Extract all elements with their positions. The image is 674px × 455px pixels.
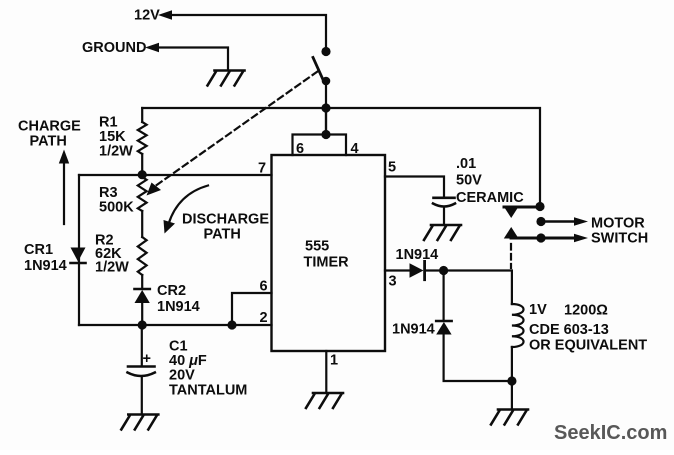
relay contact (upper, NC) bbox=[504, 207, 542, 219]
label 1N914 (series) bbox=[396, 247, 439, 263]
svg-text:SWITCH: SWITCH bbox=[591, 231, 648, 247]
label C1 40uF 20V TANTALUM bbox=[169, 339, 247, 399]
wire left rail bbox=[78, 175, 80, 325]
svg-text:2: 2 bbox=[260, 310, 268, 326]
mechanical link (dashed) switch to R3 bbox=[147, 72, 318, 196]
svg-text:GROUND: GROUND bbox=[82, 40, 146, 56]
node C1 junction bbox=[138, 320, 147, 329]
svg-text:3: 3 bbox=[389, 274, 397, 290]
svg-text:DISCHARGE: DISCHARGE bbox=[182, 212, 269, 228]
resistor R3 (pot) bbox=[138, 177, 147, 237]
label .01 50V CERAMIC bbox=[456, 156, 524, 206]
wire MOTOR lead with arrow bbox=[536, 217, 588, 226]
wire pin 3 bbox=[385, 269, 410, 271]
wire switch to rail bbox=[325, 81, 327, 135]
node relay common bbox=[535, 202, 544, 211]
svg-text:.01: .01 bbox=[456, 156, 476, 172]
ground (C1) bbox=[121, 415, 158, 430]
wire pin3 to coil bbox=[425, 271, 512, 305]
node GROUND label bbox=[82, 40, 146, 56]
wire main V+ rail bbox=[142, 108, 540, 207]
diode 1N914 (shunt) bbox=[436, 271, 512, 382]
capacitor C1 bbox=[128, 325, 155, 414]
svg-text:+: + bbox=[143, 351, 151, 367]
svg-text:1/2W: 1/2W bbox=[99, 144, 133, 160]
pin 6 (left) bbox=[260, 279, 268, 295]
node pin6 junction bbox=[227, 320, 236, 329]
wire pin 5 bbox=[385, 177, 444, 197]
pin 3 bbox=[389, 274, 397, 290]
wire pin 6 bracket bbox=[232, 293, 272, 325]
label R3 500K bbox=[99, 185, 134, 216]
resistor R1 bbox=[138, 108, 147, 177]
ground (coil) bbox=[491, 410, 528, 425]
svg-text:CR2: CR2 bbox=[157, 283, 186, 299]
ground (ceramic cap) bbox=[424, 225, 461, 240]
svg-text:5: 5 bbox=[388, 160, 396, 176]
svg-text:555: 555 bbox=[305, 239, 329, 255]
charge path arrow bbox=[59, 150, 69, 225]
label 1N914 (shunt) bbox=[392, 322, 435, 338]
svg-text:SeekIC.com: SeekIC.com bbox=[554, 422, 667, 444]
wire pin 7 line bbox=[79, 174, 272, 176]
svg-text:1200Ω: 1200Ω bbox=[564, 303, 608, 319]
mechanical link (dashed) relay bbox=[510, 244, 512, 268]
pin 1 bbox=[330, 353, 338, 369]
svg-text:CDE 603-13: CDE 603-13 bbox=[529, 322, 609, 338]
wire ground lead with arrow bbox=[145, 43, 228, 70]
label DISCHARGE PATH bbox=[182, 212, 269, 243]
svg-text:6: 6 bbox=[260, 279, 268, 295]
watermark SeekIC.com bbox=[554, 422, 667, 444]
diode CR2 bbox=[135, 289, 150, 325]
svg-text:CERAMIC: CERAMIC bbox=[456, 190, 524, 206]
svg-text:CR1: CR1 bbox=[24, 242, 53, 258]
svg-text:1N914: 1N914 bbox=[396, 247, 439, 263]
pin 5 bbox=[388, 160, 396, 176]
wire 12V feed with arrow bbox=[158, 10, 326, 47]
svg-text:7: 7 bbox=[258, 161, 266, 177]
node 12V label bbox=[134, 8, 160, 24]
pin 6 (top) bbox=[296, 141, 304, 157]
label R1 15K 1/2W bbox=[99, 115, 133, 160]
label 555 TIMER bbox=[304, 239, 350, 271]
label SWITCH bbox=[591, 231, 648, 247]
svg-text:TANTALUM: TANTALUM bbox=[169, 383, 247, 399]
svg-text:6: 6 bbox=[296, 141, 304, 157]
node diode junction bbox=[439, 266, 448, 275]
label 1V 1200ohm CDE 603-13 OR EQUIVALENT bbox=[529, 302, 647, 354]
svg-text:50V: 50V bbox=[456, 173, 482, 189]
relay armature contact (lower) bbox=[504, 227, 576, 239]
svg-text:MOTOR: MOTOR bbox=[591, 216, 645, 232]
resistor R2 bbox=[138, 237, 147, 288]
diode CR1 bbox=[71, 248, 86, 264]
discharge path arrow bbox=[164, 186, 209, 234]
label R2 62K 1/2W bbox=[95, 233, 129, 276]
wire pin 2 line bbox=[79, 324, 272, 326]
label CHARGE PATH bbox=[18, 119, 81, 150]
wire SWITCH lead with arrow bbox=[536, 233, 588, 242]
svg-text:1N914: 1N914 bbox=[392, 322, 435, 338]
svg-text:1: 1 bbox=[330, 353, 338, 369]
node coil bottom junction bbox=[507, 376, 516, 385]
pin 7 bbox=[258, 161, 266, 177]
svg-text:500K: 500K bbox=[99, 200, 134, 216]
svg-text:20V: 20V bbox=[169, 368, 195, 384]
wire pin 1 to ground bbox=[325, 351, 327, 393]
diode 1N914 (series, pin 3) bbox=[410, 261, 425, 279]
ground (top left) bbox=[208, 71, 245, 86]
svg-text:1N914: 1N914 bbox=[157, 299, 200, 315]
ground (pin 1) bbox=[306, 393, 343, 408]
svg-text:PATH: PATH bbox=[30, 134, 67, 150]
op 555 timer box U1 bbox=[272, 155, 386, 351]
label CR2 1N914 bbox=[157, 283, 200, 315]
wire top bracket pins 6/4 bbox=[293, 108, 347, 155]
svg-text:4: 4 bbox=[351, 141, 359, 157]
node switch junction bbox=[321, 103, 330, 112]
label CR1 1N914 bbox=[24, 242, 67, 274]
svg-text:CHARGE: CHARGE bbox=[18, 119, 81, 135]
relay coil K1 bbox=[512, 304, 524, 409]
label MOTOR bbox=[591, 216, 645, 232]
pin 4 (top) bbox=[351, 141, 359, 157]
svg-text:PATH: PATH bbox=[204, 227, 241, 243]
label C1 plus bbox=[143, 351, 151, 367]
svg-text:TIMER: TIMER bbox=[304, 255, 350, 271]
pin 2 bbox=[260, 310, 268, 326]
node R1/R3/pin7 junction bbox=[138, 170, 147, 179]
svg-text:1V: 1V bbox=[529, 302, 547, 318]
capacitor .01 ceramic bbox=[433, 198, 455, 225]
switch S1 bbox=[313, 47, 331, 85]
svg-text:OR EQUIVALENT: OR EQUIVALENT bbox=[529, 338, 647, 354]
svg-text:12V: 12V bbox=[134, 8, 160, 24]
svg-text:1N914: 1N914 bbox=[24, 258, 67, 274]
svg-text:1/2W: 1/2W bbox=[95, 260, 129, 276]
